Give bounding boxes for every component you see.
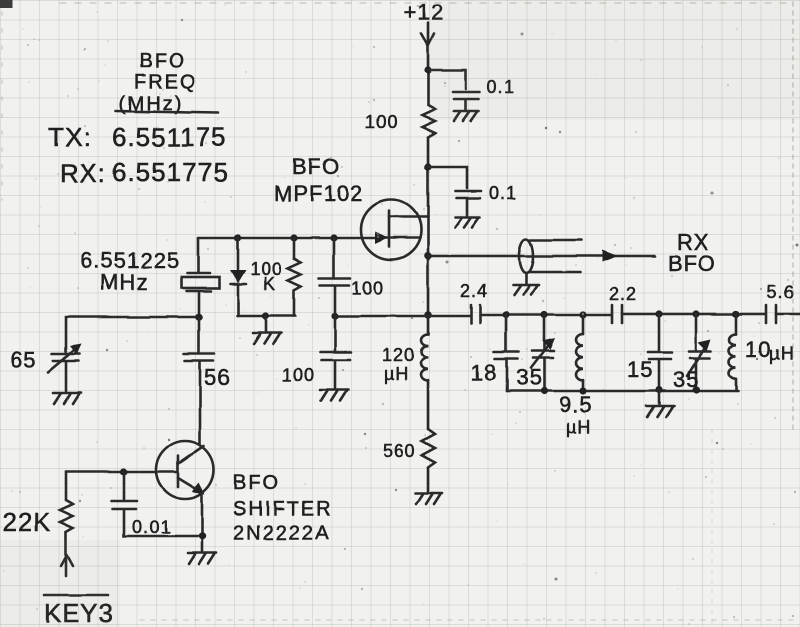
capacitor C2 0.1 [455,191,481,215]
node diode top [234,234,241,241]
node C14 bottom [692,386,699,393]
svg-text:18: 18 [471,360,497,385]
resistor R3 22K [60,500,73,532]
ground below C1 [454,111,479,121]
node filter1 C12 [540,311,547,318]
arrow on output line [602,250,618,262]
KEY3 overline [44,594,108,597]
svg-text:2.2: 2.2 [609,284,637,304]
Q2 emitter lead with arrow [178,478,205,495]
capacitor C3 100 upper [319,238,350,316]
label +12 supply [404,0,444,25]
header text BFO FREQ (MHz) [119,50,198,115]
wire bias ground segment [237,315,295,318]
ground below C4 [320,390,348,401]
svg-text:0.01: 0.01 [132,517,171,537]
label 560 [383,441,416,461]
svg-text:15: 15 [627,357,653,382]
svg-text:9.5: 9.5 [559,392,593,417]
wire base left corner down [65,472,68,500]
label 5.6 [767,282,795,302]
svg-text:FREQ: FREQ [134,71,198,93]
inductor L2 10uH [729,314,736,390]
wire bus exit right [776,313,800,316]
node J4 on bus [424,311,432,319]
trimmer capacitor C12 35 [531,315,555,391]
wire +12 feed to resistor [427,23,430,105]
svg-text:5.6: 5.6 [767,282,795,302]
crystal Y1 [181,273,219,316]
node J1 drain bypass upper [424,66,431,73]
capacitor C13 15 [648,314,672,390]
node filter1 L1 [579,311,586,318]
JFET channel bar [388,211,391,247]
svg-text:MPF102: MPF102 [274,181,363,206]
capacitor C8 2.4 series [471,305,480,323]
label RX BFO [668,230,716,276]
wire emitter down [201,494,204,551]
node filter2 C13 [655,310,662,317]
node J2 drain bypass lower [424,163,431,170]
inductor L1 9.5uH [576,315,583,391]
wire L3 to R4 [427,380,430,429]
diode D1 [230,238,246,316]
node C3/C4 bus [331,312,338,319]
svg-text:6.551775: 6.551775 [112,157,228,187]
coax pickup ellipse [519,239,533,273]
wire bus middle section [480,314,611,317]
wire R1 to drain region [427,137,430,334]
label 22K [2,507,51,537]
label 15 [627,357,653,382]
wire filter bottom [507,390,738,393]
label 120 uH [382,345,415,384]
svg-text:2.4: 2.4 [460,281,488,301]
ground below emitter [188,553,216,564]
trimmer capacitor C14 35 [687,314,711,390]
svg-text:MHz: MHz [100,270,148,295]
label 35 (filter1) [516,365,542,390]
node R2 top [290,234,297,241]
svg-text:6.551175: 6.551175 [112,122,227,152]
arrow down on supply wire [421,34,434,46]
coax ground tail [525,273,528,284]
capacitor C9 2.2 series [612,305,622,323]
label 18 [471,360,497,385]
label 35 (filter2) [673,367,699,392]
svg-text:100: 100 [351,278,384,298]
svg-text:22K: 22K [2,507,51,537]
wire bus left section [335,315,470,318]
trimmer capacitor C5 65 [48,344,82,391]
label TX: 6.551175 [48,122,227,152]
ground below C2 [455,217,480,227]
wire tap down [265,316,268,332]
capacitor C1 0.1 [453,92,480,110]
svg-text:2N2222A: 2N2222A [233,522,330,544]
label 0.1 (C1) [487,77,515,97]
label 6.551225 MHz [80,248,180,295]
svg-text:µH: µH [566,417,591,437]
svg-text:BFO: BFO [668,251,716,276]
label 56 [204,365,230,390]
svg-text:120: 120 [382,345,415,365]
svg-text:560: 560 [383,441,416,461]
wire J1 to C1 [428,70,466,89]
svg-text:56: 56 [204,365,230,390]
ground below bias [253,333,281,344]
node J3 source output [424,252,432,260]
node crystal bottom [195,313,203,321]
node ground tap [262,312,269,319]
label 100 (C3) [351,278,384,298]
svg-text:RX:: RX: [60,158,106,188]
inductor L3 120uH [421,334,428,380]
label 10 uH [745,337,794,364]
node emitter/C7 [198,532,206,540]
label 2.4 [460,281,488,301]
capacitor C11 18 [494,315,519,391]
label 65 [10,347,36,372]
svg-text:µH: µH [384,364,409,384]
ground below C5 [53,393,81,404]
label 100 (R1) [365,112,398,132]
resistor R4 560 [422,429,435,467]
JFET drain lead [389,216,428,219]
ground below R4 [415,493,442,504]
JFET gate lead with arrow [198,232,420,244]
label 100 (C4) [282,365,315,385]
wire base [66,471,178,474]
wire crystal junction to left [66,317,199,352]
node base/C7 [120,468,127,475]
label BFO MPF102 [274,154,363,206]
Q2 base bar [177,456,180,487]
wire J2 to C2 [428,167,467,188]
gate node wire [197,238,200,272]
capacitor C7 0.01 [112,472,202,536]
svg-text:100: 100 [365,112,398,132]
label 0.1 (C2) [489,183,517,203]
svg-text:BFO: BFO [292,154,340,179]
node filter2 L2 [732,310,739,317]
Q2 collector lead [178,446,204,464]
node L1 bottom [579,387,586,394]
label RX: 6.551775 [60,157,228,188]
wire bus right section [622,313,765,316]
wire R3 to KEY3 with up arrow [61,532,73,576]
svg-text:100: 100 [282,365,315,385]
wire R4 to ground [427,467,430,492]
capacitor C6 56 [184,317,214,444]
coax braid leads [530,240,582,272]
capacitor C10 5.6 series [766,305,776,323]
svg-text:BFO: BFO [139,50,186,72]
svg-text:µH: µH [769,344,794,364]
corner smudge [0,0,13,8]
label 100 K [250,259,283,294]
ground below C13 [646,406,674,417]
ground below coax [513,285,539,295]
svg-text:65: 65 [10,347,36,372]
label KEY3 [44,598,115,627]
svg-text:BFO: BFO [233,472,280,494]
underline under (MHz) [116,111,218,113]
node filter2 C14 [692,310,699,317]
svg-text:K: K [263,274,276,294]
node C13 bottom [655,386,662,393]
svg-text:35: 35 [516,365,542,390]
node C12 bottom [540,387,547,394]
label 2.2 [609,284,637,304]
node filter1 C11 [502,311,509,318]
label 9.5 uH [559,392,593,437]
svg-text:SHIFTER: SHIFTER [233,498,333,520]
wire C13 ground tail [658,390,661,404]
wire output line to RX BFO [428,255,655,258]
transistor Q2 2N2222A body [156,441,214,499]
resistor R1 100 [422,105,435,137]
capacitor C4 100 lower [320,316,351,388]
node C3 top [330,234,337,241]
label 0.01 [132,517,171,537]
resistor R2 100K [288,238,301,316]
svg-text:0.1: 0.1 [489,183,517,203]
svg-text:10: 10 [745,337,771,362]
transistor Q1 JFET MPF102 body [361,200,421,260]
label BFO SHIFTER 2N2222A [233,472,333,544]
